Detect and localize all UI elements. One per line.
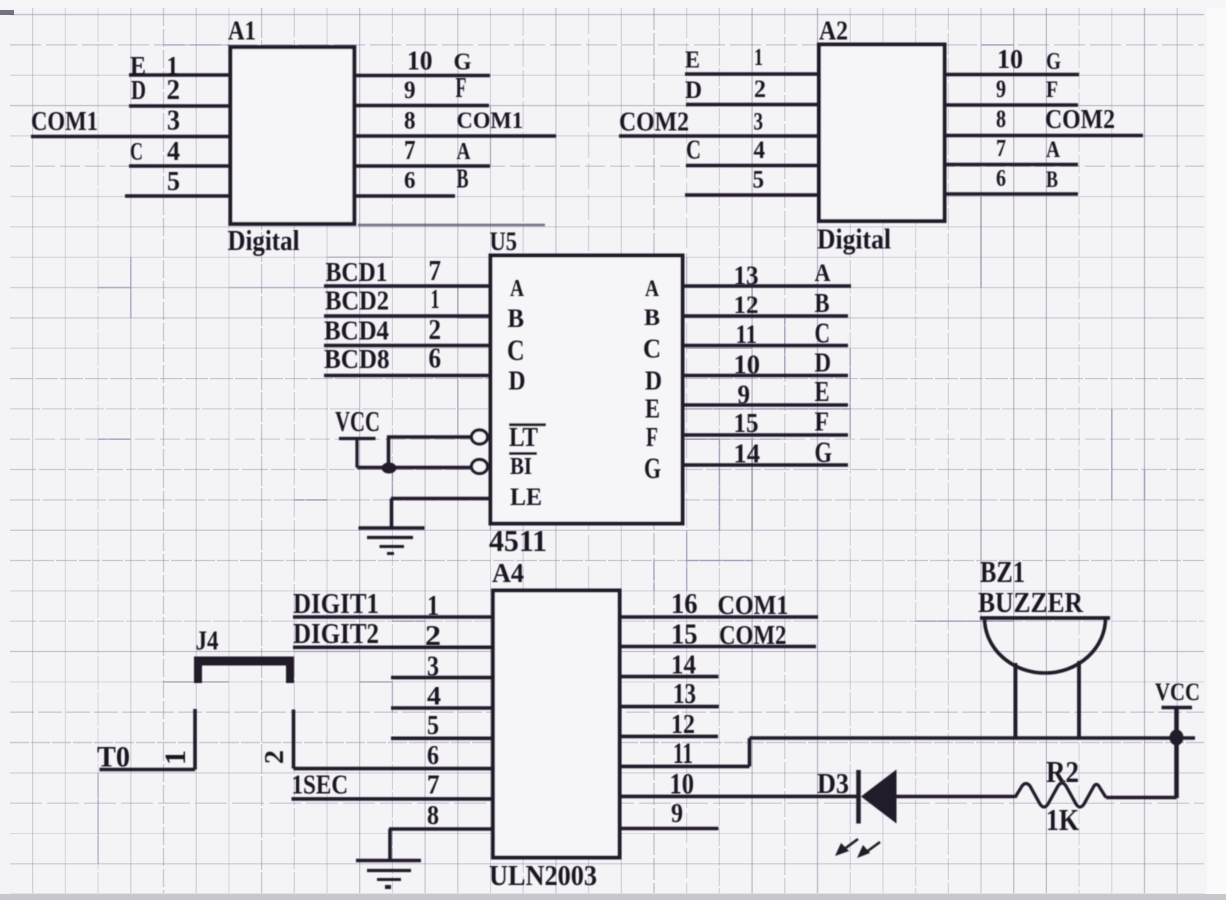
svg-text:COM1: COM1 — [718, 590, 789, 620]
svg-text:D: D — [131, 75, 146, 106]
svg-text:B: B — [508, 303, 525, 333]
svg-text:F: F — [1046, 77, 1058, 102]
svg-text:D: D — [685, 75, 702, 104]
svg-text:G: G — [815, 437, 833, 469]
svg-text:COM2: COM2 — [719, 620, 787, 651]
svg-text:14: 14 — [734, 439, 761, 469]
svg-text:B: B — [815, 288, 830, 318]
svg-text:7: 7 — [427, 770, 440, 800]
svg-text:BCD1: BCD1 — [326, 257, 388, 287]
svg-text:7: 7 — [429, 255, 442, 287]
svg-text:2: 2 — [754, 74, 766, 103]
svg-text:COM2: COM2 — [1045, 104, 1115, 134]
svg-text:D: D — [645, 366, 662, 397]
svg-text:B: B — [457, 164, 469, 194]
svg-text:6: 6 — [429, 343, 442, 375]
svg-text:6: 6 — [427, 740, 439, 770]
svg-text:1: 1 — [158, 750, 192, 765]
svg-text:E: E — [645, 394, 660, 424]
svg-text:9: 9 — [404, 75, 416, 104]
svg-text:COM1: COM1 — [457, 108, 524, 134]
svg-text:DIGIT2: DIGIT2 — [293, 618, 379, 650]
svg-text:BUZZER: BUZZER — [978, 587, 1083, 619]
svg-text:D3: D3 — [817, 768, 849, 800]
svg-text:12: 12 — [671, 709, 695, 740]
svg-text:15: 15 — [734, 408, 759, 438]
svg-text:U5: U5 — [490, 226, 518, 256]
svg-text:A2: A2 — [819, 16, 848, 46]
svg-text:C: C — [643, 334, 661, 364]
svg-text:A: A — [815, 258, 831, 287]
svg-text:16: 16 — [671, 588, 698, 620]
svg-text:14: 14 — [671, 650, 696, 681]
svg-text:1K: 1K — [1046, 803, 1079, 837]
svg-text:VCC: VCC — [335, 406, 380, 438]
svg-text:C: C — [130, 137, 143, 166]
svg-text:B: B — [644, 305, 660, 331]
svg-text:A1: A1 — [228, 16, 256, 46]
svg-text:C: C — [815, 318, 831, 350]
svg-text:T0: T0 — [97, 742, 130, 774]
svg-text:BCD8: BCD8 — [324, 344, 390, 374]
svg-text:Digital: Digital — [228, 225, 300, 257]
svg-text:F: F — [815, 407, 830, 437]
svg-text:10: 10 — [734, 350, 761, 380]
svg-text:A4: A4 — [492, 558, 524, 588]
svg-text:10: 10 — [670, 769, 695, 801]
svg-text:5: 5 — [167, 166, 180, 197]
svg-text:6: 6 — [404, 167, 416, 194]
svg-text:12: 12 — [734, 290, 759, 319]
svg-text:B: B — [1046, 167, 1058, 192]
svg-text:2: 2 — [429, 314, 442, 346]
svg-text:LE: LE — [510, 482, 542, 511]
svg-text:13: 13 — [673, 678, 696, 710]
svg-text:C: C — [507, 335, 525, 367]
svg-text:E: E — [685, 47, 700, 74]
svg-text:7: 7 — [404, 135, 416, 165]
svg-text:LT: LT — [509, 422, 538, 452]
svg-text:2: 2 — [167, 74, 181, 106]
svg-text:A: A — [457, 138, 471, 165]
svg-text:4: 4 — [754, 135, 766, 164]
svg-text:A: A — [1046, 137, 1061, 162]
svg-text:ULN2003: ULN2003 — [489, 860, 597, 892]
svg-text:8: 8 — [996, 104, 1006, 133]
svg-text:9: 9 — [738, 380, 751, 411]
svg-text:10: 10 — [407, 46, 433, 76]
svg-text:1: 1 — [431, 284, 440, 314]
svg-text:1: 1 — [754, 44, 763, 71]
svg-text:8: 8 — [427, 800, 439, 830]
svg-text:F: F — [646, 422, 658, 452]
svg-text:BCD4: BCD4 — [324, 316, 389, 347]
svg-text:11: 11 — [673, 738, 693, 770]
svg-text:D: D — [509, 366, 526, 397]
svg-text:13: 13 — [734, 261, 759, 291]
svg-text:E: E — [815, 376, 830, 408]
svg-text:5: 5 — [753, 165, 765, 194]
svg-text:C: C — [686, 135, 701, 165]
svg-text:COM1: COM1 — [31, 106, 98, 136]
svg-text:15: 15 — [671, 619, 698, 651]
svg-text:9: 9 — [996, 74, 1006, 103]
svg-text:5: 5 — [427, 710, 439, 740]
svg-text:A: A — [510, 275, 524, 302]
svg-text:1: 1 — [427, 590, 439, 622]
svg-text:11: 11 — [736, 319, 758, 349]
svg-text:9: 9 — [671, 798, 683, 828]
svg-text:Digital: Digital — [817, 224, 891, 256]
svg-text:G: G — [644, 453, 661, 485]
svg-text:D: D — [815, 348, 832, 378]
svg-text:R2: R2 — [1046, 755, 1079, 789]
svg-text:7: 7 — [996, 135, 1006, 162]
svg-text:DIGIT1: DIGIT1 — [293, 588, 379, 620]
svg-text:J4: J4 — [196, 626, 219, 656]
svg-text:BI: BI — [510, 453, 532, 480]
svg-text:2: 2 — [259, 750, 290, 764]
svg-text:BZ1: BZ1 — [980, 555, 1025, 589]
svg-text:G: G — [1046, 48, 1061, 75]
svg-text:3: 3 — [754, 107, 764, 136]
svg-text:6: 6 — [996, 165, 1006, 192]
svg-text:A: A — [645, 276, 660, 301]
svg-text:4: 4 — [427, 681, 441, 711]
svg-text:4: 4 — [167, 136, 180, 166]
svg-text:4511: 4511 — [489, 524, 547, 558]
svg-text:BCD2: BCD2 — [325, 286, 389, 316]
svg-text:2: 2 — [425, 620, 441, 652]
svg-text:VCC: VCC — [1155, 677, 1200, 706]
svg-text:10: 10 — [997, 44, 1023, 74]
svg-text:3: 3 — [167, 105, 180, 137]
svg-text:F: F — [456, 72, 467, 104]
svg-text:3: 3 — [427, 651, 439, 683]
svg-text:8: 8 — [404, 106, 416, 135]
svg-text:1SEC: 1SEC — [292, 770, 349, 801]
svg-text:COM2: COM2 — [619, 107, 689, 137]
